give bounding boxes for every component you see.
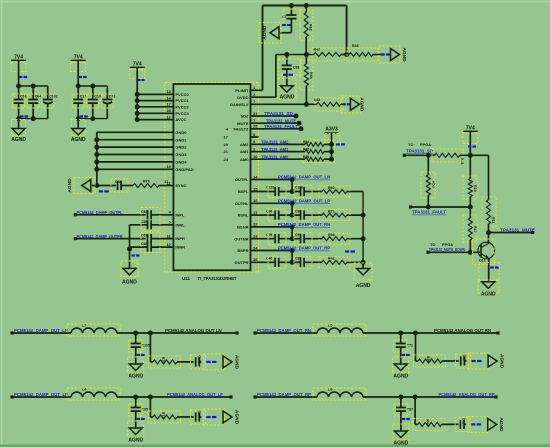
svg-text:AGND: AGND [11,137,26,143]
svg-text:14: 14 [253,174,258,179]
svg-text:PCM5142 ANALOG OUT RN: PCM5142 ANALOG OUT RN [434,328,491,333]
svg-text:INPR: INPR [175,236,185,241]
svg-text:13: 13 [166,89,171,94]
svg-text:AM1: AM1 [240,149,249,154]
svg-text:OUTNR: OUTNR [234,236,248,241]
svg-text:24: 24 [224,157,229,162]
svg-text:SDZ: SDZ [241,114,250,119]
svg-text:U11: U11 [182,276,191,281]
svg-text:BSPR: BSPR [237,248,248,253]
svg-text:12: 12 [166,114,171,119]
svg-text:GND/PAD: GND/PAD [175,167,193,172]
svg-text:10: 10 [253,154,258,159]
svg-text:28: 28 [166,108,171,113]
svg-text:AGND: AGND [67,178,73,193]
svg-text:OUTPR: OUTPR [235,260,249,265]
svg-text:PVCC3: PVCC3 [175,111,189,116]
svg-text:AGND: AGND [233,355,239,370]
svg-text:PCM5142_ANALOG_OUT_LP: PCM5142_ANALOG_OUT_LP [167,392,223,397]
svg-text:AGND: AGND [359,97,365,112]
svg-text:AGND: AGND [280,95,295,101]
svg-text:BSNL: BSNL [238,213,249,218]
svg-text:PCM5142_ANALOG_OUT_RP: PCM5142_ANALOG_OUT_RP [439,392,495,397]
svg-text:AGND: AGND [401,47,407,62]
svg-text:MUTE: MUTE [237,121,249,126]
svg-text:C76: C76 [266,233,272,237]
svg-text:TPA3131_AM0: TPA3131_AM0 [261,154,289,159]
svg-text:GND0: GND0 [175,130,187,135]
svg-text:C69: C69 [141,220,147,224]
svg-text:C64: C64 [35,95,42,99]
svg-text:AGND: AGND [356,283,371,289]
svg-text:C88: C88 [295,257,301,261]
svg-text:BSPL: BSPL [238,189,249,194]
svg-text:OUTPL: OUTPL [235,177,249,182]
svg-text:SYNC: SYNC [175,183,186,188]
svg-text:PCM5142_DAMP_OUT_LN: PCM5142_DAMP_OUT_LN [278,175,330,180]
svg-text:PVCC2: PVCC2 [175,104,189,109]
svg-text:17: 17 [224,135,229,140]
svg-text:AM2: AM2 [240,142,249,147]
svg-text:C100: C100 [295,186,303,190]
svg-text:GAIN/SLV: GAIN/SLV [230,102,249,107]
svg-text:R11: R11 [491,217,495,223]
svg-text:C89: C89 [462,418,466,424]
svg-text:15: 15 [253,186,258,191]
svg-text:TPA3131_MUTE: TPA3131_MUTE [266,118,296,123]
svg-text:C67: C67 [141,234,147,238]
svg-text:C96: C96 [266,209,272,213]
svg-text:AGND: AGND [122,279,137,285]
svg-text:C120: C120 [266,186,274,190]
svg-text:FAULTZ: FAULTZ [233,126,249,131]
svg-text:AGND: AGND [394,441,409,447]
svg-text:Q11: Q11 [479,259,486,263]
svg-text:INNL: INNL [175,222,185,227]
svg-text:TPA3131_AM1: TPA3131_AM1 [261,147,289,152]
svg-text:C17: C17 [80,95,87,99]
svg-text:TPA3131_FAULT: TPA3131_FAULT [264,124,298,129]
svg-text:FPGA: FPGA [420,142,431,147]
svg-text:R76: R76 [143,180,150,184]
svg-text:BSNR: BSNR [237,225,248,230]
svg-text:AM0: AM0 [240,157,249,162]
svg-text:TI_TPA3131D2RHBT: TI_TPA3131D2RHBT [198,276,237,281]
svg-text:7V4: 7V4 [133,62,142,68]
svg-text:12: 12 [166,242,171,247]
svg-text:TPA3131_FAULT: TPA3131_FAULT [412,210,446,215]
svg-text:R72: R72 [161,412,165,418]
svg-text:PCM5142 ANALOG OUT LN: PCM5142 ANALOG OUT LN [165,328,222,333]
svg-text:14: 14 [166,95,171,100]
svg-text:PCM5142_DAMP_OUT_RP: PCM5142_DAMP_OUT_RP [278,246,330,251]
svg-text:AGND: AGND [499,354,505,369]
svg-text:R17: R17 [473,226,477,233]
svg-text:R58: R58 [328,233,335,237]
svg-text:INPL: INPL [175,212,185,217]
svg-text:OUTNL: OUTNL [235,201,249,206]
svg-text:17: 17 [253,210,258,215]
svg-text:AGND: AGND [481,292,496,298]
svg-text:C68: C68 [141,242,147,246]
svg-text:16: 16 [253,198,258,203]
svg-text:C16: C16 [20,95,27,99]
svg-text:TPA3131_AM2: TPA3131_AM2 [261,140,289,145]
svg-text:PVCC1: PVCC1 [175,98,189,103]
svg-text:OVDD: OVDD [237,95,249,100]
svg-text:AGND: AGND [262,25,268,40]
svg-text:R62: R62 [309,24,313,31]
svg-text:R42: R42 [328,257,335,261]
svg-text:17: 17 [166,102,171,107]
svg-text:24: 24 [253,245,258,250]
svg-text:R19: R19 [473,185,477,192]
svg-text:C63: C63 [141,210,147,214]
svg-text:R79: R79 [161,357,165,363]
svg-text:R60: R60 [328,186,335,190]
svg-text:GND3: GND3 [175,152,187,157]
svg-text:20: 20 [224,142,229,147]
svg-text:PVCC0: PVCC0 [175,92,189,97]
svg-text:R43: R43 [426,419,430,425]
svg-text:R71: R71 [328,210,335,214]
svg-text:AVCC: AVCC [175,117,186,122]
svg-text:GND2: GND2 [175,145,187,150]
svg-text:PLIMIT: PLIMIT [235,88,249,93]
svg-text:C81: C81 [293,66,300,70]
svg-text:AGND: AGND [233,410,239,425]
svg-text:PCM5142_DAMP_OUT_LP: PCM5142_DAMP_OUT_LP [278,199,330,204]
svg-text:R43: R43 [352,44,359,48]
svg-text:13: 13 [166,164,171,169]
svg-text:C19: C19 [94,95,101,99]
svg-text:C85: C85 [462,355,466,361]
svg-text:22: 22 [253,222,258,227]
svg-text:AGND: AGND [128,438,143,444]
svg-text:25: 25 [253,124,258,129]
svg-text:INNR: INNR [175,245,185,250]
svg-text:A3V3: A3V3 [325,127,338,133]
svg-text:R64: R64 [309,72,313,79]
svg-text:PCM5142_DAMP_OUT_RN: PCM5142_DAMP_OUT_RN [278,222,330,227]
svg-text:C98: C98 [295,209,301,213]
svg-text:C46: C46 [266,257,272,261]
svg-text:AGND: AGND [498,417,504,432]
svg-text:26: 26 [253,257,258,262]
svg-text:AGND: AGND [71,137,86,143]
svg-text:AGND: AGND [393,374,408,380]
svg-text:C94: C94 [295,233,301,237]
svg-text:GND1: GND1 [175,137,187,142]
svg-text:TPA3131_MUTE_DOWN: TPA3131_MUTE_DOWN [429,247,465,252]
svg-text:GND4: GND4 [175,160,187,165]
svg-text:TPA3131_SD: TPA3131_SD [264,111,293,116]
svg-text:C73: C73 [109,95,116,99]
svg-text:R59: R59 [426,356,430,362]
svg-text:21: 21 [224,149,229,154]
svg-text:TPA3131_SD: TPA3131_SD [406,149,433,154]
svg-text:AGND: AGND [128,374,143,380]
svg-text:TO: TO [408,142,413,147]
svg-text:27: 27 [253,111,258,116]
svg-text:23: 23 [253,234,258,239]
svg-text:C48: C48 [115,180,122,184]
